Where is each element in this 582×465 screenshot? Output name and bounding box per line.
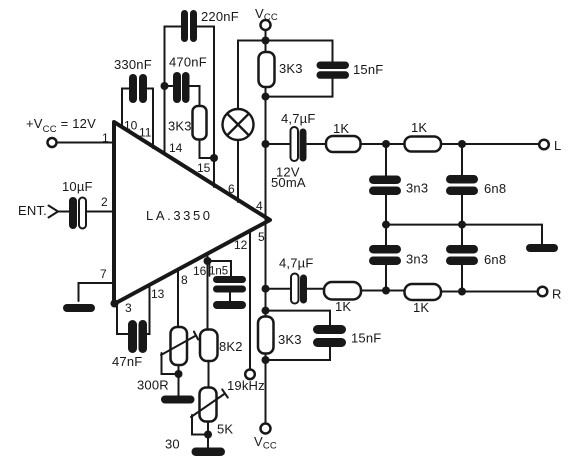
wire capacitor 1n5 to ground bbox=[229, 292, 231, 302]
junction mid row right bbox=[458, 221, 466, 229]
svg-text:6: 6 bbox=[228, 182, 235, 196]
wire capacitor 47nF to pin 13 bbox=[147, 286, 150, 334]
svg-text:3K3: 3K3 bbox=[278, 332, 302, 347]
wire capacitor 15nF bottom loop return bbox=[266, 347, 331, 360]
wire resistor 8K2 to potentiometer 5K bbox=[208, 361, 210, 389]
capacitor 47nF bbox=[128, 320, 147, 353]
terminal R bbox=[538, 287, 548, 297]
svg-text:2: 2 bbox=[101, 195, 108, 209]
wire node pin4 down through apex to node pin5 bbox=[265, 144, 267, 289]
wire node 16 branch to capacitor 1n5 bbox=[208, 261, 232, 277]
junction node L row left bbox=[262, 140, 270, 148]
terminal +Vcc 12V bbox=[48, 138, 57, 147]
svg-text:11: 11 bbox=[139, 126, 152, 140]
wire pin 12 to 19kHz terminal bbox=[249, 230, 251, 370]
wire 300R bottom to ground bbox=[178, 365, 180, 397]
svg-text:14: 14 bbox=[169, 141, 183, 155]
resistor 3K3 top right bbox=[259, 52, 275, 87]
lamp 12V 50mA bbox=[223, 109, 254, 140]
junction R row mid bbox=[382, 287, 390, 295]
terminal 19kHz bbox=[245, 370, 255, 380]
wire 1K to terminal R bbox=[441, 291, 538, 293]
svg-text:5K: 5K bbox=[217, 422, 233, 437]
wire capacitor 10uF to pin 2 bbox=[87, 211, 114, 213]
svg-text:15: 15 bbox=[197, 161, 211, 175]
resistor 1K L row second bbox=[405, 137, 442, 152]
capacitor 6n8 bottom bbox=[446, 245, 478, 265]
wire pin 8 to potentiometer 300R bbox=[177, 271, 179, 328]
svg-text:10: 10 bbox=[124, 119, 138, 133]
svg-text:47nF: 47nF bbox=[112, 354, 142, 369]
svg-text:6n8: 6n8 bbox=[484, 252, 506, 267]
wire capacitor 3n3 to mid node bbox=[385, 195, 387, 246]
svg-text:4,7µF: 4,7µF bbox=[279, 256, 314, 271]
junction node 15 bbox=[210, 154, 218, 162]
wire pin 3 to capacitor 47nF bbox=[117, 305, 129, 334]
svg-text:470nF: 470nF bbox=[169, 55, 207, 70]
wire resistor 3K3 bottom to node 15 bbox=[200, 139, 215, 158]
junction node 3K3 bottom top bbox=[262, 307, 270, 315]
svg-text:19kHz: 19kHz bbox=[227, 378, 265, 393]
ground mid right bbox=[526, 244, 558, 252]
wire capacitor 4.7uF to resistor 1K bbox=[307, 143, 327, 145]
wire capacitor 220nF right down to node 15 bbox=[198, 27, 215, 159]
capacitor 15nF bottom bbox=[313, 325, 346, 347]
svg-text:1K: 1K bbox=[411, 120, 427, 135]
capacitor 4.7uF electrolytic R bbox=[291, 274, 307, 304]
wire Vcc terminal to resistor 3K3 top right bbox=[265, 30, 267, 53]
resistor 1K R row first bbox=[324, 282, 361, 300]
svg-text:3n3: 3n3 bbox=[406, 181, 428, 196]
wire node pin14 to capacitor 470nF left bbox=[165, 85, 174, 87]
terminal Vcc top bbox=[261, 20, 271, 30]
svg-text:50mA: 50mA bbox=[271, 175, 306, 190]
ground 300R bbox=[161, 396, 195, 404]
junction pin 3 vertex bbox=[111, 300, 119, 308]
svg-text:1n5: 1n5 bbox=[209, 266, 228, 278]
ground 1n5 bbox=[213, 301, 246, 309]
svg-text:10µF: 10µF bbox=[62, 179, 93, 194]
svg-text:1K: 1K bbox=[333, 121, 349, 136]
input arrow ENT. bbox=[49, 206, 59, 218]
svg-text:1K: 1K bbox=[413, 300, 429, 315]
wire capacitor 6n8 bottom to R row bbox=[461, 265, 463, 292]
wire pin 16 to resistor 8K2 bbox=[207, 253, 209, 330]
junction node 3K3 bottom low bbox=[262, 356, 270, 364]
wire pin 11 to capacitor 330nF bbox=[148, 89, 154, 149]
wire capacitor 220nF left to pin 14 bbox=[165, 27, 182, 155]
potentiometer 300R bbox=[161, 327, 198, 365]
wire pin 7 to ground bbox=[79, 283, 114, 301]
resistor 1K L row first bbox=[326, 136, 361, 152]
svg-text:3K3: 3K3 bbox=[168, 119, 192, 134]
wire mid node to ground right bbox=[386, 225, 542, 244]
junction node pin14 bbox=[161, 82, 169, 90]
wire resistor 3K3 to Vcc bottom terminal bbox=[265, 353, 267, 424]
wire lamp bottom to pin 6 bbox=[237, 140, 239, 202]
svg-text:8K2: 8K2 bbox=[219, 339, 243, 354]
capacitor 220nF bbox=[181, 10, 197, 42]
capacitor 10uF electrolytic bbox=[69, 197, 86, 229]
wire node 15 to pin 15 bbox=[213, 158, 215, 187]
wire +Vcc input to pin 1 bbox=[57, 142, 113, 144]
potentiometer 5K bbox=[191, 388, 228, 422]
wire between 1K resistors R row bbox=[361, 290, 405, 292]
svg-text:ENT.: ENT. bbox=[18, 203, 47, 218]
svg-text:3n3: 3n3 bbox=[406, 252, 428, 267]
wire capacitor 15nF bottom to node below 3K3 bbox=[266, 79, 333, 97]
op-amp U1 LA3350 body bbox=[114, 122, 270, 304]
svg-text:LA.3350: LA.3350 bbox=[146, 208, 213, 223]
ground pin 7 bbox=[63, 304, 95, 312]
svg-text:4: 4 bbox=[256, 199, 263, 213]
svg-text:3: 3 bbox=[125, 301, 132, 315]
wire capacitor 6n8 to mid node bbox=[461, 195, 463, 246]
wire lamp top to Vcc node bbox=[238, 41, 266, 110]
capacitor 470nF bbox=[173, 72, 190, 103]
junction Vcc top node bbox=[262, 37, 270, 45]
wire capacitor 4.7uF R to resistor 1K bbox=[308, 288, 325, 290]
capacitor 3n3 top bbox=[369, 176, 401, 196]
svg-text:30: 30 bbox=[165, 437, 180, 452]
svg-text:R: R bbox=[552, 287, 562, 302]
wire 5K bottom to ground bbox=[207, 421, 209, 448]
wire pin 10 to capacitor 330nF bbox=[122, 89, 129, 129]
wire between 1K resistors L row bbox=[360, 143, 405, 145]
junction L row right bbox=[458, 140, 466, 148]
junction R row right bbox=[458, 288, 466, 296]
wire capacitor 3n3 bottom to R row bbox=[385, 265, 387, 291]
svg-text:1K: 1K bbox=[335, 299, 351, 314]
resistor 3K3 mid bbox=[193, 106, 207, 140]
resistor 3K3 bottom bbox=[258, 317, 274, 354]
capacitor 330nF bbox=[129, 74, 147, 103]
junction node pin5 bbox=[262, 285, 270, 293]
svg-text:3K3: 3K3 bbox=[279, 61, 303, 76]
wire ENT. to capacitor 10uF bbox=[58, 211, 69, 213]
wire node L to capacitor 4.7uF bbox=[266, 143, 291, 145]
wire 300R wiper loop bbox=[162, 353, 179, 374]
junction 300R bottom bbox=[175, 370, 183, 378]
svg-text:5: 5 bbox=[258, 230, 265, 244]
capacitor 3n3 bottom bbox=[369, 245, 401, 265]
svg-text:220nF: 220nF bbox=[201, 9, 239, 24]
resistor 8K2 bbox=[200, 330, 218, 362]
junction 5K bottom bbox=[204, 431, 212, 439]
wire 5K wiper loop bbox=[192, 415, 208, 435]
wire node to capacitor 6n8 top bbox=[461, 144, 463, 176]
svg-text:330nF: 330nF bbox=[114, 57, 152, 72]
wire node pin5 to capacitor 4.7uF R bbox=[266, 288, 292, 290]
capacitor 1n5 bbox=[213, 276, 246, 293]
wire resistor 3K3 bottom down to node L bbox=[265, 87, 267, 145]
wire capacitor 470nF right to resistor 3K3 bbox=[190, 86, 200, 107]
svg-text:8: 8 bbox=[181, 273, 188, 287]
wire 1n5 label box left bar bbox=[209, 262, 211, 276]
capacitor 15nF top bbox=[317, 62, 350, 79]
ground 5K bbox=[192, 448, 226, 457]
svg-text:7: 7 bbox=[100, 267, 107, 281]
junction below 3K3 top bbox=[262, 93, 270, 101]
svg-text:4,7µF: 4,7µF bbox=[281, 111, 316, 126]
svg-text:16: 16 bbox=[193, 264, 207, 278]
svg-text:6n8: 6n8 bbox=[484, 181, 506, 196]
junction mid row left bbox=[382, 221, 390, 229]
wire Vcc node to capacitor 15nF top bbox=[266, 41, 333, 63]
svg-text:1: 1 bbox=[102, 131, 109, 145]
svg-text:15nF: 15nF bbox=[353, 62, 383, 77]
wire node to capacitor 3n3 top bbox=[385, 144, 387, 176]
terminal Vcc bottom bbox=[261, 424, 271, 434]
wire 1K to terminal L bbox=[441, 143, 539, 145]
terminal L bbox=[539, 140, 549, 150]
svg-text:13: 13 bbox=[151, 287, 165, 301]
junction node 16 bbox=[204, 257, 212, 265]
resistor 1K R row second bbox=[405, 284, 442, 300]
capacitor 4.7uF electrolytic L bbox=[291, 127, 307, 162]
svg-text:300R: 300R bbox=[137, 378, 169, 393]
svg-text:L: L bbox=[554, 138, 561, 153]
junction L row mid bbox=[382, 140, 390, 148]
capacitor 6n8 top bbox=[446, 175, 478, 195]
svg-text:15nF: 15nF bbox=[351, 331, 381, 346]
wire node to capacitor 15nF bottom loop top bbox=[266, 311, 331, 325]
wire node pin5 to resistor 3K3 bottom bbox=[265, 289, 267, 317]
svg-text:12: 12 bbox=[234, 238, 248, 252]
